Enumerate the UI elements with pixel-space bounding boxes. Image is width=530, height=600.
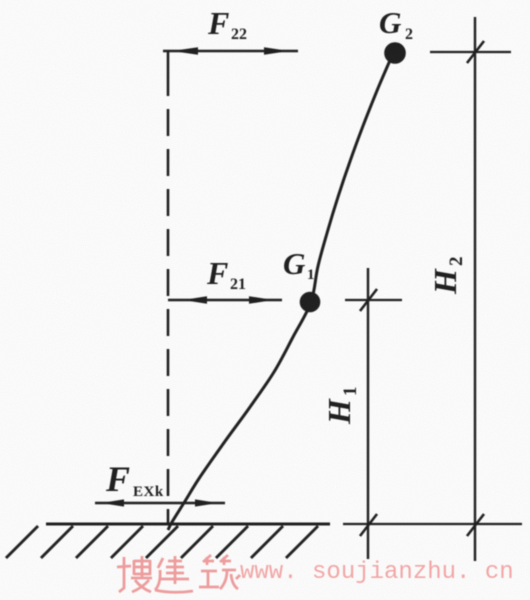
wire: extension line at G2 level	[430, 51, 511, 53]
label H2 (rotated)	[427, 257, 467, 296]
char JIAN	[155, 556, 193, 592]
label G1	[283, 246, 315, 283]
wire: FEXk left arrowhead	[101, 499, 124, 506]
node: tick at H1 top	[360, 289, 377, 311]
wire: extension line at G1 level	[345, 299, 402, 301]
wire: H1 dimension line	[367, 268, 369, 559]
wire: F22 left arrowhead	[172, 47, 198, 55]
label F21	[206, 255, 246, 293]
wire: F22 force arrow line	[163, 50, 298, 52]
wire: F21 force arrow line	[168, 299, 282, 301]
char SOU	[117, 556, 152, 592]
wire: vertical dashed reference line	[167, 109, 170, 525]
node G2: mass circle	[386, 44, 405, 63]
wire: deflected column curve	[168, 54, 393, 530]
watermark: chinese characters sou-jian-zhu drawn as strokes	[117, 555, 240, 592]
char ZHU	[199, 555, 240, 589]
label FEXk	[105, 459, 164, 500]
wire: F21 left arrowhead	[183, 296, 207, 304]
ground hatching	[6, 526, 318, 558]
label H1 (rotated)	[321, 387, 361, 426]
node: tick at H1 bottom	[360, 514, 377, 536]
node: tick at H2 top	[467, 41, 484, 63]
node: tick at H2 bottom	[467, 514, 484, 536]
wire: FEXk base shear arrow line	[95, 502, 225, 504]
wire: H2 dimension line	[474, 17, 476, 561]
label G2	[379, 5, 413, 43]
label F22	[207, 5, 247, 43]
paper noise overlay	[0, 0, 1, 1]
wire: F21 right arrowhead	[249, 296, 273, 304]
node G1: mass circle	[301, 293, 319, 311]
wire: FEXk right arrowhead	[195, 499, 218, 506]
ground line	[46, 523, 330, 526]
wire: extension line at ground level right	[343, 523, 522, 525]
wire: vertical reference line top solid segment	[167, 52, 170, 96]
wire: F22 right arrowhead	[264, 47, 289, 55]
